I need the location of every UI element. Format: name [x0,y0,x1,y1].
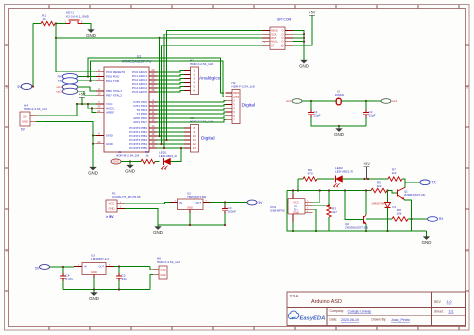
svg-text:Analógico: Analógico [199,76,221,82]
svg-text:osc2: osc2 [57,90,63,93]
svg-text:K2-3.6-6.1_SMD: K2-3.6-6.1_SMD [66,15,90,19]
svg-text:Drawn By:: Drawn By: [372,318,387,322]
svg-text:13: 13 [193,146,197,150]
svg-text:HDR-M-2.54_1M: HDR-M-2.54_1M [116,154,139,158]
svg-text:O: O [281,29,283,33]
svg-text:GND: GND [153,230,163,235]
svg-text:GND: GND [91,270,97,274]
svg-text:IN: IN [84,265,87,269]
svg-text:HDR-F-2.54_1x2: HDR-F-2.54_1x2 [157,260,180,264]
svg-text:PC5 ADC5: PC5 ADC5 [132,90,147,94]
svg-text:22pF: 22pF [314,113,321,117]
svg-text:osc1: osc1 [286,100,292,103]
svg-text:AREF: AREF [106,111,114,115]
svg-text:D1: D1 [393,205,397,209]
svg-text:10k: 10k [397,212,402,216]
svg-text:osc1: osc1 [57,86,63,89]
svg-text:4k7: 4k7 [332,210,337,214]
svg-text:B: B [6,86,8,90]
svg-text:HDR-F-2.54_1x2: HDR-F-2.54_1x2 [24,107,47,111]
svg-text:CONN-TH_2P-P5.08: CONN-TH_2P-P5.08 [112,195,141,199]
svg-text:NULL: NULL [271,40,278,44]
svg-text:Digital: Digital [242,103,256,109]
svg-text:LED-0603_R: LED-0603_R [335,170,354,174]
svg-text:OUT: OUT [195,201,201,205]
svg-text:O: O [281,32,283,36]
svg-text:> 5V: > 5V [106,215,114,219]
svg-text:PC6 RESET#: PC6 RESET# [106,70,125,74]
svg-text:1k: 1k [42,17,46,21]
svg-text:RX: RX [58,75,62,79]
svg-text:1N4007/W: 1N4007/W [371,202,384,206]
svg-text:D: D [466,249,468,253]
svg-text:16MHz: 16MHz [335,93,345,97]
svg-text:B: B [466,86,468,90]
svg-text:GND: GND [22,120,28,124]
svg-text:2020-08-19: 2020-08-19 [341,318,359,322]
svg-text:3.3V: 3.3V [161,269,166,272]
svg-text:GND: GND [422,240,432,245]
svg-text:+5V: +5V [79,93,86,97]
svg-text:1k2: 1k2 [392,171,397,175]
svg-text:VCC: VCC [109,202,115,206]
svg-text:Company:: Company: [330,309,345,313]
svg-text:EasyEDA: EasyEDA [300,315,326,321]
svg-text:GND: GND [334,132,344,137]
svg-text:0.47u: 0.47u [66,277,74,281]
svg-text:PB7 XTAL2: PB7 XTAL2 [106,93,122,97]
svg-text:TX: TX [58,79,62,83]
svg-text:GND: GND [106,142,114,146]
svg-text:D: D [6,249,8,253]
svg-text:REV: REV [434,300,442,304]
svg-text:PD1 TXD: PD1 TXD [106,79,120,83]
svg-text:Colégio Univap: Colégio Univap [348,309,372,313]
svg-text:1k: 1k [145,154,149,158]
svg-text:GND: GND [88,170,98,175]
svg-text:SPI COM: SPI COM [277,18,291,22]
svg-text:GND: GND [299,63,309,68]
svg-text:GND: GND [86,33,96,38]
svg-text:+5V: +5V [363,162,370,166]
svg-text:100nF: 100nF [228,209,237,213]
svg-text:470: 470 [307,172,312,176]
svg-text:GND: GND [106,134,114,138]
svg-text:1k2: 1k2 [377,184,382,188]
svg-text:+5V: +5V [309,11,316,15]
svg-text:IN: IN [180,201,183,205]
svg-text:Sheet:: Sheet: [434,309,444,313]
svg-text:Digital: Digital [201,135,215,141]
svg-text:SCK: SCK [271,32,277,36]
svg-text:TITLE:: TITLE: [290,294,299,298]
svg-text:5V: 5V [23,115,26,119]
svg-text:HDR-F-2.54_1x8: HDR-F-2.54_1x8 [190,62,213,66]
svg-text:Date:: Date: [330,318,338,322]
svg-text:Joao_Pedro: Joao_Pedro [391,318,410,322]
svg-text:OUT: OUT [99,265,105,269]
svg-text:RST: RST [271,36,277,40]
svg-text:MISO: MISO [271,29,278,33]
svg-text:osc2: osc2 [392,100,398,103]
svg-text:33u: 33u [122,277,127,281]
svg-text:ATMEGA328P-PU: ATMEGA328P-PU [122,60,152,64]
svg-text:1/1: 1/1 [449,309,454,313]
svg-text:7805(SOT-89): 7805(SOT-89) [187,195,206,199]
svg-text:2N3906(SOT-23): 2N3906(SOT-23) [345,226,368,230]
svg-text:O: O [281,40,283,44]
svg-text:Arduino ASD: Arduino ASD [311,299,342,305]
svg-text:GND: GND [113,160,119,164]
svg-text:AIN1 PD7: AIN1 PD7 [133,120,147,124]
svg-text:HDR-F-2.54_1x8: HDR-F-2.54_1x8 [190,119,213,123]
svg-text:LM3940T-3.3: LM3940T-3.3 [91,257,109,261]
svg-text:GND: GND [89,296,99,301]
svg-text:GND: GND [293,211,299,215]
svg-text:O: O [281,36,283,40]
svg-text:1.0: 1.0 [447,300,452,304]
svg-text:GND: GND [187,206,193,210]
svg-text:LED-0603_R: LED-0603_R [159,154,178,158]
svg-text:GND: GND [125,168,135,173]
svg-text:USB-BF90: USB-BF90 [270,209,285,213]
svg-text:22pF: 22pF [369,113,376,117]
svg-text:2N3904(SOT-23): 2N3904(SOT-23) [404,193,425,197]
svg-text:HDR-F-2.54_1x8: HDR-F-2.54_1x8 [232,84,255,88]
svg-text:GND: GND [109,207,115,211]
svg-text:GND: GND [160,274,166,277]
